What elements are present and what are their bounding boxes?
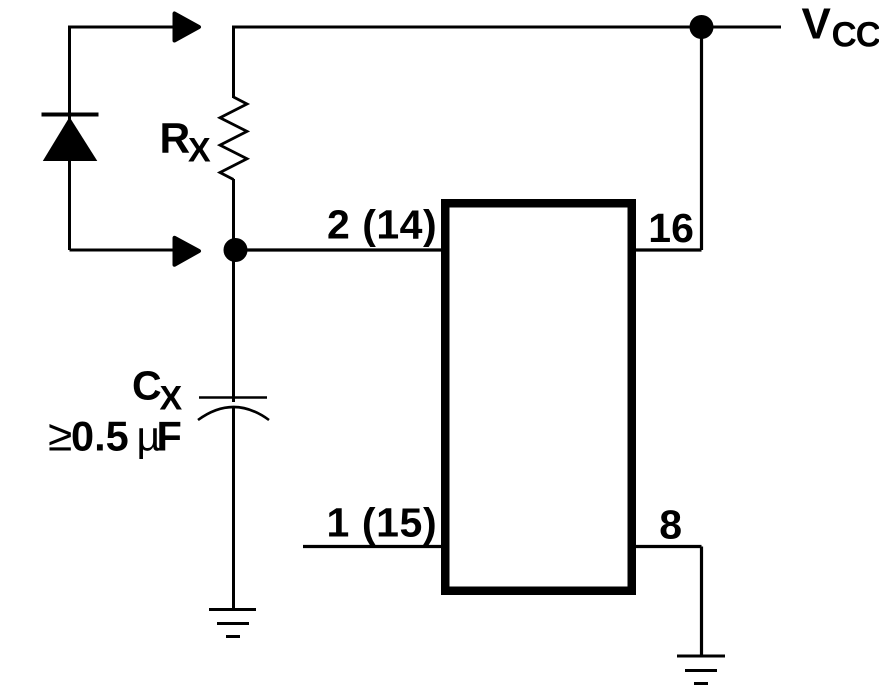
- svg-text:CC: CC: [832, 16, 879, 55]
- wire pin16 horizontal: [634, 248, 702, 251]
- diode D1 triangle: [43, 117, 98, 161]
- svg-text:8: 8: [659, 502, 682, 548]
- ground symbol right line3: [694, 682, 708, 685]
- ground symbol left line1: [209, 608, 256, 611]
- wire resistor to node: [232, 179, 235, 250]
- svg-text:2 (14): 2 (14): [327, 202, 437, 248]
- resistor RX zigzag: [220, 97, 247, 180]
- svg-text:V: V: [802, 0, 832, 49]
- node junction dot Vcc: [690, 15, 714, 39]
- wire bottom-left from diode to arrow: [70, 249, 178, 252]
- wire capacitor branch: [232, 250, 235, 402]
- wire pin16 vertical to top rail: [700, 27, 703, 250]
- wire resistor branch upper: [232, 26, 235, 99]
- diode D1 cathode bar: [42, 113, 99, 117]
- ground symbol right line2: [685, 669, 717, 672]
- wire pin2 to IC: [234, 248, 443, 251]
- wire top rail to Vcc: [232, 26, 781, 29]
- wire pin8 horizontal: [634, 545, 702, 548]
- arrowhead input top: [175, 14, 200, 41]
- svg-text:16: 16: [648, 205, 694, 251]
- capacitor CX top plate: [199, 396, 267, 399]
- wire pin8 vertical to ground: [700, 547, 703, 657]
- ground symbol right line1: [677, 655, 725, 658]
- svg-text:X: X: [188, 132, 211, 170]
- svg-text:1 (15): 1 (15): [327, 500, 438, 546]
- svg-text:C: C: [132, 363, 162, 409]
- svg-text:R: R: [160, 116, 191, 163]
- arrowhead input bottom: [175, 238, 200, 265]
- node junction dot pin2: [224, 238, 248, 262]
- capacitor CX curved plate: [198, 407, 269, 420]
- IC body U1: [445, 203, 632, 591]
- wire top-left L from diode branch: [70, 27, 177, 250]
- wire pin1 input: [303, 545, 443, 548]
- svg-text:≥0.5µF: ≥0.5µF: [48, 412, 182, 461]
- ground symbol left line3: [226, 635, 240, 638]
- ground symbol left line2: [217, 622, 249, 625]
- wire capacitor to ground: [232, 408, 235, 609]
